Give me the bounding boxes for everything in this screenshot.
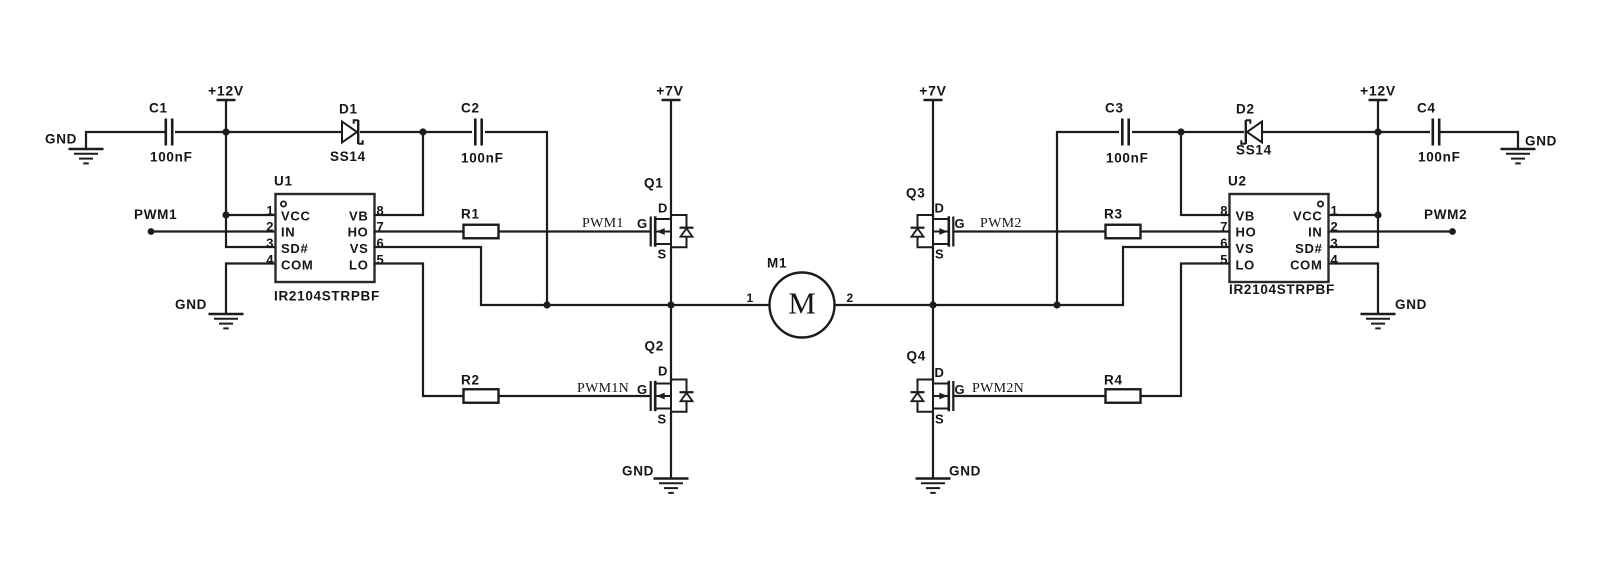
svg-text:GND: GND <box>175 297 207 312</box>
svg-text:GND: GND <box>45 132 77 147</box>
wire +12V vertical to U1 pin 1 <box>226 132 276 215</box>
motor M1 <box>767 256 835 338</box>
svg-text:IN: IN <box>281 225 295 240</box>
resistor R4 <box>1104 373 1141 403</box>
wire U1 pin 7 HO to R1 <box>375 230 464 232</box>
svg-text:U1: U1 <box>274 174 293 189</box>
svg-text:1: 1 <box>747 291 754 305</box>
svg-text:VS: VS <box>1236 241 1255 256</box>
wire U1 pin 6 VS to output rail <box>375 247 548 305</box>
svg-text:4: 4 <box>1331 252 1339 267</box>
wire U1 pin 5 LO down to R2 <box>375 264 464 397</box>
svg-text:S: S <box>935 412 944 427</box>
svg-text:Q2: Q2 <box>645 339 664 354</box>
wire +12V vertical to U2 pin 1 <box>1329 132 1379 215</box>
wire C4 left plate to +12V node right <box>1262 131 1430 133</box>
wire output rail VS to half-bridge midpoint <box>547 304 671 306</box>
svg-text:+12V: +12V <box>1360 83 1396 99</box>
svg-text:VCC: VCC <box>1293 209 1323 224</box>
wire C3 left plate down to output rail (VS2 net) <box>1057 132 1119 305</box>
svg-text:S: S <box>658 412 667 427</box>
svg-text:GND: GND <box>1525 134 1557 149</box>
svg-text:C2: C2 <box>461 101 480 116</box>
svg-text:C4: C4 <box>1417 101 1436 116</box>
svg-text:G: G <box>637 216 648 231</box>
power +12V right <box>1360 83 1396 133</box>
svg-text:PWM1: PWM1 <box>582 216 624 231</box>
node half-bridge 2 midpoint <box>929 301 936 308</box>
wire output rail to half-bridge 2 midpoint <box>933 304 1057 306</box>
wire PWM2 input to U2 pin 2 <box>1329 207 1468 232</box>
svg-text:G: G <box>955 382 966 397</box>
wire midpoint to motor pin 1 <box>671 291 770 305</box>
ground GND under U2 <box>1361 297 1428 328</box>
wire VCC down to U2 pin 3 (SD#) <box>1329 215 1379 247</box>
svg-text:R1: R1 <box>461 207 480 222</box>
svg-text:PWM1N: PWM1N <box>577 381 629 396</box>
wire U2 pin 6 VS to output rail right <box>1057 247 1230 305</box>
wire Q4 source to ground <box>932 412 934 479</box>
node +12V junction right top rail <box>1374 128 1381 135</box>
svg-text:2: 2 <box>266 219 273 234</box>
node D2-C3 junction <box>1177 128 1184 135</box>
svg-text:GND: GND <box>1395 297 1427 312</box>
transistor Q1 <box>637 176 694 262</box>
ground GND under U1 <box>175 297 244 328</box>
svg-text:C1: C1 <box>149 101 168 116</box>
node +12V junction on top rail <box>222 128 229 135</box>
resistor R3 <box>1104 207 1141 239</box>
svg-text:PWM1: PWM1 <box>134 207 177 222</box>
node VCC pin1 junction <box>222 211 229 218</box>
svg-text:VCC: VCC <box>281 209 311 224</box>
wire U1 pin 8 VB to D1 cathode node <box>375 132 424 215</box>
wire U2 pin 8 VB to D2 cathode node <box>1181 132 1230 215</box>
svg-text:1: 1 <box>266 203 273 218</box>
wire C2 right plate down to output rail (VS net) <box>485 132 547 305</box>
node D1-C2 junction <box>419 128 426 135</box>
wire R2 to Q2 gate, net PWM1N <box>499 381 651 396</box>
node C2/VS junction on output rail <box>543 301 550 308</box>
wire motor pin 2 to half-bridge 2 midpoint <box>835 291 934 305</box>
svg-text:Q3: Q3 <box>906 186 925 201</box>
ground GND top-left <box>45 132 165 164</box>
svg-text:GND: GND <box>949 464 981 479</box>
svg-text:R2: R2 <box>461 373 480 388</box>
transistor Q3 <box>906 186 965 262</box>
svg-text:COM: COM <box>1290 258 1322 273</box>
svg-text:PWM2: PWM2 <box>980 216 1022 231</box>
svg-text:+7V: +7V <box>656 83 683 99</box>
wire PWM1 input to U1 pin 2 <box>134 207 276 232</box>
svg-text:1: 1 <box>1331 203 1338 218</box>
node C3/VS junction on output rail right <box>1053 301 1060 308</box>
svg-text:D: D <box>935 365 945 380</box>
node half-bridge 1 midpoint <box>667 301 674 308</box>
svg-text:Q4: Q4 <box>907 349 926 364</box>
wire R1 to Q1 gate, net PWM1 <box>499 216 651 232</box>
resistor R2 <box>461 373 499 403</box>
svg-text:R4: R4 <box>1104 373 1123 388</box>
node PWM2 input terminal <box>1449 228 1456 235</box>
svg-text:R3: R3 <box>1104 207 1123 222</box>
svg-text:6: 6 <box>377 236 384 251</box>
capacitor C3 <box>1105 101 1149 166</box>
wire R3 to Q3 gate, net PWM2 <box>953 216 1105 232</box>
svg-text:COM: COM <box>281 258 313 273</box>
wire R4 to Q4 gate, net PWM2N <box>953 381 1105 396</box>
svg-text:VB: VB <box>1236 209 1255 224</box>
svg-text:HO: HO <box>348 225 369 240</box>
diode D2 <box>1236 102 1272 158</box>
svg-text:+12V: +12V <box>208 83 244 99</box>
svg-text:S: S <box>935 247 944 262</box>
svg-text:+7V: +7V <box>919 83 946 99</box>
svg-text:SS14: SS14 <box>330 149 366 164</box>
svg-text:SD#: SD# <box>281 241 308 256</box>
svg-text:LO: LO <box>349 258 368 273</box>
diode D1 <box>330 102 366 165</box>
capacitor C2 <box>461 101 504 166</box>
svg-text:G: G <box>955 216 966 231</box>
svg-text:Q1: Q1 <box>644 176 663 191</box>
svg-text:D1: D1 <box>339 102 358 117</box>
wire Q1 source to midpoint node <box>670 247 672 305</box>
svg-text:G: G <box>637 382 648 397</box>
node VCC pin1 junction right <box>1374 211 1381 218</box>
wire C1 right plate to +12V node <box>175 131 342 133</box>
svg-text:100nF: 100nF <box>1418 150 1461 165</box>
svg-text:SD#: SD# <box>1295 241 1322 256</box>
ground GND top-right <box>1439 132 1557 163</box>
svg-text:100nF: 100nF <box>461 151 504 166</box>
wire U2 pin 4 COM to ground <box>1329 264 1379 315</box>
svg-text:D: D <box>658 201 668 216</box>
svg-text:D2: D2 <box>1236 102 1255 117</box>
wire D2 cathode to node right <box>1181 131 1244 133</box>
svg-text:4: 4 <box>266 252 274 267</box>
wire VCC down to U1 pin 3 (SD#) <box>226 215 276 247</box>
svg-text:PWM2N: PWM2N <box>972 381 1024 396</box>
power +7V left <box>656 83 683 220</box>
svg-text:3: 3 <box>1331 236 1338 251</box>
capacitor C1 <box>149 101 193 165</box>
svg-text:PWM2: PWM2 <box>1424 207 1467 222</box>
svg-text:100nF: 100nF <box>1106 151 1149 166</box>
power +12V left <box>208 83 244 133</box>
capacitor C4 <box>1417 101 1461 165</box>
svg-text:HO: HO <box>1236 225 1257 240</box>
svg-text:D: D <box>658 364 668 379</box>
transistor Q4 <box>907 349 966 427</box>
wire U2 pin 5 LO down to R4 <box>1141 264 1230 397</box>
wire node to C2 left plate <box>423 131 472 133</box>
wire U1 pin 4 COM to ground <box>226 264 276 315</box>
svg-text:3: 3 <box>266 236 273 251</box>
wire Q2 source to ground <box>670 412 672 479</box>
wire D1 cathode to node <box>360 131 423 133</box>
svg-text:SS14: SS14 <box>1236 143 1272 158</box>
svg-text:GND: GND <box>622 464 654 479</box>
svg-text:M1: M1 <box>767 256 787 271</box>
wire U2 pin 7 HO to R3 <box>1141 230 1230 232</box>
svg-text:2: 2 <box>1331 219 1338 234</box>
svg-text:6: 6 <box>1220 236 1227 251</box>
svg-text:IN: IN <box>1308 225 1322 240</box>
transistor Q2 <box>637 339 694 427</box>
svg-text:2: 2 <box>847 291 854 305</box>
svg-text:100nF: 100nF <box>150 150 193 165</box>
power +7V right <box>919 83 946 220</box>
svg-text:D: D <box>935 201 945 216</box>
node PWM1 input terminal <box>148 228 155 235</box>
resistor R1 <box>461 207 499 239</box>
svg-text:LO: LO <box>1236 258 1255 273</box>
wire Q3 source to midpoint node right <box>932 247 934 305</box>
svg-text:VB: VB <box>349 209 368 224</box>
wire node to C3 right plate <box>1132 131 1181 133</box>
wire midpoint down to Q4 drain <box>932 305 934 384</box>
ground GND under Q4 <box>916 464 982 493</box>
svg-text:IR2104STRPBF: IR2104STRPBF <box>1229 282 1335 297</box>
svg-text:C3: C3 <box>1105 101 1124 116</box>
wire midpoint down to Q2 drain <box>670 305 672 384</box>
svg-text:S: S <box>658 247 667 262</box>
svg-text:M: M <box>788 286 816 321</box>
op-amp driver U2 IR2104STRPBF <box>1220 174 1338 298</box>
ground GND under Q2 <box>622 464 689 493</box>
svg-text:VS: VS <box>350 241 369 256</box>
svg-text:IR2104STRPBF: IR2104STRPBF <box>274 289 380 304</box>
op-amp driver U1 IR2104STRPBF <box>266 174 383 304</box>
svg-text:U2: U2 <box>1228 174 1247 189</box>
